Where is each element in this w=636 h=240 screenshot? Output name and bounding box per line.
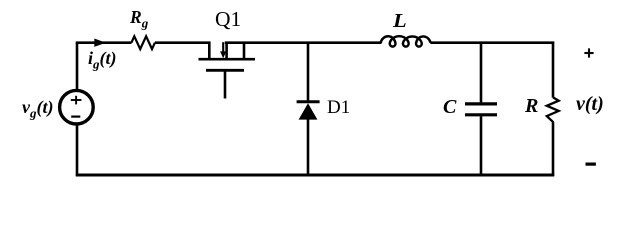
voltage source plus sign <box>71 96 82 105</box>
wire capacitor branch lower <box>480 116 483 176</box>
wire right rail upper <box>552 42 555 98</box>
transistor Q1 source arrow <box>220 42 226 58</box>
inductor L coil <box>381 36 431 46</box>
wire diode branch upper <box>307 43 310 101</box>
label D1 <box>327 97 350 119</box>
voltage source vg circle <box>60 90 94 124</box>
transistor Q1 source stub <box>225 42 228 60</box>
label R <box>525 95 538 118</box>
wire from inductor to right corner <box>430 41 554 44</box>
wire capacitor branch upper <box>480 42 483 103</box>
voltage source minus sign <box>71 115 80 117</box>
wire from Rg to Q1 drain <box>155 41 211 44</box>
wire diode branch lower <box>307 119 310 177</box>
label Rg <box>130 7 148 32</box>
label ig(t) <box>88 48 117 73</box>
resistor Rg zigzag <box>131 36 155 49</box>
label v(t) <box>576 93 604 116</box>
wire top-left segment from source to Rg <box>77 43 132 44</box>
diode D1 triangle <box>299 103 318 119</box>
label Q1 <box>215 7 241 32</box>
wire left rail lower (source bottom lead) <box>76 124 79 176</box>
wire from Q1 source to inductor <box>225 41 382 44</box>
capacitor C bottom plate <box>465 113 497 116</box>
capacitor C top plate <box>465 102 497 105</box>
diode D1 cathode bar <box>297 100 320 103</box>
transistor Q1 channel bar <box>199 58 256 61</box>
current arrow ig <box>94 39 106 47</box>
label L <box>393 10 407 33</box>
output minus sign <box>586 163 596 166</box>
wire right rail lower <box>552 122 555 176</box>
transistor Q1 drain stub <box>208 42 211 60</box>
resistor R zigzag <box>547 97 559 122</box>
transistor Q1 gate bar <box>206 69 244 72</box>
wire left rail upper (source top lead) <box>76 43 79 91</box>
transistor Q1 body stub <box>243 42 246 60</box>
output plus sign <box>584 48 593 57</box>
transistor Q1 gate lead <box>224 70 227 98</box>
wire bottom rail <box>76 174 554 177</box>
label C <box>443 96 456 119</box>
label vg(t) <box>22 97 54 122</box>
